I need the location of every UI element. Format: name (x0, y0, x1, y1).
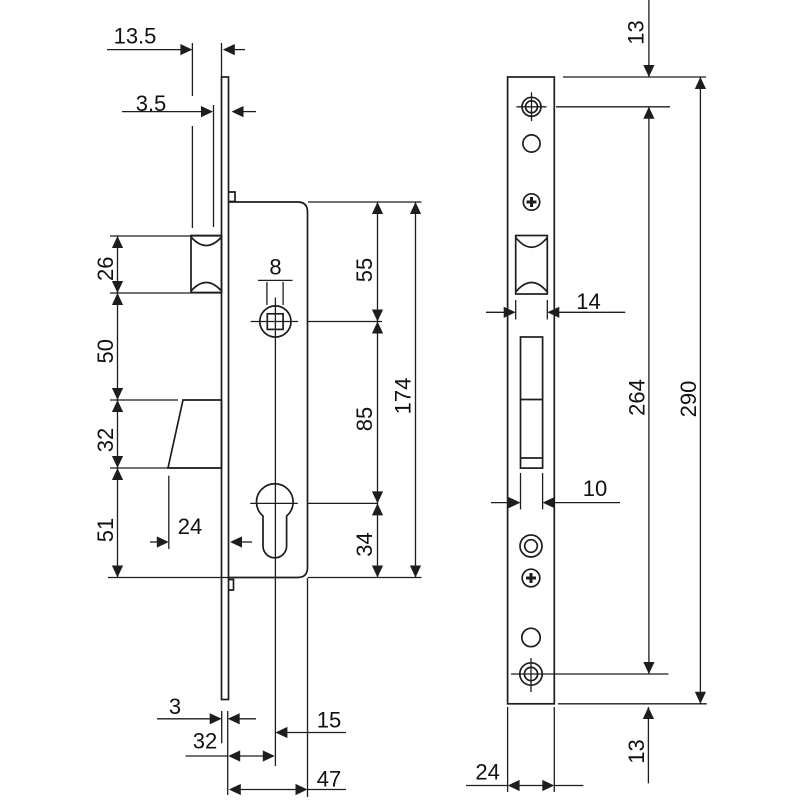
dim 15 line and arrow (275, 727, 346, 738)
dim 8 line (258, 279, 293, 281)
svg-text:13: 13 (624, 739, 649, 763)
body right edge extension line (307, 578, 309, 797)
svg-text:24: 24 (475, 760, 499, 785)
dim 3.5 line and arrows (122, 106, 256, 117)
dim 13 bottom line and arrow (643, 707, 654, 783)
svg-text:13: 13 (624, 20, 649, 44)
cylinder horizontal centerline (250, 502, 297, 504)
plate left edge extension tick (221, 711, 223, 743)
svg-text:8: 8 (269, 255, 281, 280)
svg-text:32: 32 (193, 729, 217, 754)
svg-text:24: 24 (178, 514, 202, 539)
dim 24 bottom line and arrows (466, 780, 583, 791)
faceplate top tab (229, 192, 236, 202)
extension line spindle center to right (308, 321, 382, 323)
extension line roller bottom (110, 292, 222, 294)
svg-text:85: 85 (352, 407, 377, 431)
arrows left column (112, 236, 123, 578)
svg-text:3: 3 (169, 694, 181, 719)
deadbolt lever (trapezoid) (168, 400, 222, 468)
roller latch cutout front view (516, 236, 548, 295)
phillips screw top (523, 194, 539, 210)
plain hole bottom (522, 628, 540, 646)
dim 8 extension drops (266, 282, 268, 305)
euro cylinder hole (257, 484, 294, 558)
dim 13 top line and arrow (643, 0, 654, 77)
svg-text:15: 15 (317, 708, 341, 733)
extension line body bottom to right (308, 577, 422, 579)
plain hole top (523, 135, 540, 152)
dim 24 upper extension line (168, 476, 170, 549)
dim 14 extension ticks (515, 300, 517, 320)
extension line lever top (110, 399, 178, 401)
svg-text:51: 51 (93, 518, 118, 542)
svg-text:32: 32 (93, 428, 118, 452)
dim 10 extension ticks (520, 473, 522, 509)
extension line lever bottom (110, 467, 222, 469)
roller latch side view (191, 236, 222, 293)
strike plate front view (right view) (508, 77, 555, 704)
svg-text:47: 47 (317, 767, 341, 792)
svg-text:290: 290 (676, 381, 701, 418)
extension line cylinder center to right (308, 502, 378, 504)
faceplate bottom tab (229, 580, 234, 591)
spindle hub circle (260, 306, 291, 337)
svg-text:10: 10 (583, 476, 607, 501)
arrows 174 (410, 202, 421, 578)
dim 47 line and arrows (229, 784, 346, 795)
svg-text:50: 50 (93, 339, 118, 363)
arrows 55/85/34 (372, 202, 383, 578)
lock body (case) (229, 202, 308, 578)
dim line 55/85/34 (377, 202, 379, 578)
left dimension column line (117, 236, 119, 578)
svg-text:174: 174 (391, 378, 416, 415)
top screw extension line (556, 106, 670, 108)
countersunk screw hole top (517, 92, 547, 121)
svg-text:55: 55 (352, 258, 377, 282)
dim 3.5 extension tick (213, 105, 215, 227)
svg-text:34: 34 (352, 532, 377, 556)
vertical centerline through spindle and cylinder (274, 298, 276, 767)
countersunk screw hole bottom (511, 658, 551, 692)
svg-text:264: 264 (625, 379, 650, 416)
svg-text:14: 14 (576, 289, 600, 314)
dim line 174 (415, 202, 417, 578)
dim 13.5 line and arrows (107, 44, 245, 55)
extension line roller top (110, 235, 222, 237)
spindle horizontal centerline (251, 321, 299, 323)
dim 32 bottom line and arrows (186, 750, 275, 761)
extension line body top to right (308, 201, 422, 203)
double circle hole (520, 535, 542, 557)
dim 14 line and arrows (486, 307, 625, 318)
extension line body bottom left (108, 577, 229, 579)
dim 24 bottom extension ticks (507, 707, 509, 792)
dim 10 line and arrows (491, 497, 620, 508)
plate top extension line (563, 76, 706, 78)
plate right edge extension tick (227, 711, 229, 795)
faceplate edge view (left view) (222, 77, 229, 700)
svg-text:26: 26 (93, 257, 118, 281)
dim 24 upper line and arrows (150, 536, 252, 547)
dim 264 line and arrows (643, 107, 654, 674)
dim 290 line and arrows (695, 77, 706, 704)
dim 3 line and arrows (157, 713, 256, 724)
deadbolt cutout front view (521, 337, 543, 468)
dim 13.5 extension line right (above plate) (221, 43, 223, 77)
spindle square 8mm (267, 314, 283, 330)
dim 13.5 extension line left (191, 43, 193, 96)
phillips screw bottom (522, 569, 540, 587)
svg-text:13.5: 13.5 (114, 24, 157, 49)
bottom screw extension line (551, 673, 668, 675)
plate bottom extension line (558, 703, 707, 705)
